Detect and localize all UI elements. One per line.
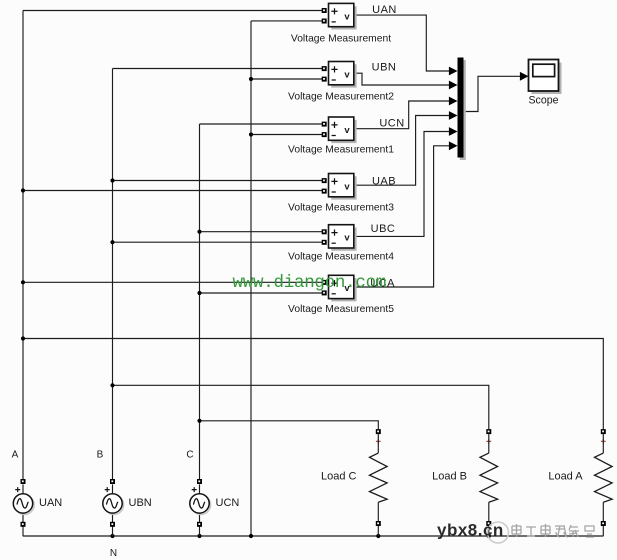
svg-text:UAN: UAN — [39, 497, 62, 509]
arrowhead mux input 3 — [449, 97, 458, 106]
node: N / VM2- junction — [249, 77, 253, 81]
wire: B to Voltage Measurement3 + input — [113, 180, 323, 182]
node: A / UAB- junction — [21, 188, 25, 192]
source UCN (AC voltage source) — [190, 479, 211, 536]
svg-text:Load A: Load A — [548, 470, 583, 482]
svg-text:N: N — [110, 548, 117, 559]
svg-text:Voltage Measurement5: Voltage Measurement5 — [288, 304, 394, 315]
node: C / Load C junction — [197, 419, 201, 423]
node: C / UCA- junction — [197, 291, 201, 295]
node: C / UBC+ junction — [197, 230, 201, 234]
wire: N to Voltage Measurement2 - input — [251, 78, 322, 80]
wire: A to Voltage Measurement5 + input — [23, 281, 322, 283]
svg-text:Voltage Measurement2: Voltage Measurement2 — [288, 91, 394, 102]
node: B / UAB+ junction — [110, 178, 114, 182]
watermark: gray logo circle — [488, 522, 509, 543]
svg-text:UCN: UCN — [379, 117, 404, 129]
node: B / Load B junction — [110, 383, 114, 387]
arrowhead mux input 1 — [449, 67, 458, 76]
wire: UCN output to mux input 3 — [354, 101, 450, 129]
mux block (6-input) — [458, 58, 466, 161]
node: N / VM1- junction — [249, 132, 253, 136]
wire: phase B feed to Load B — [113, 385, 489, 429]
svg-text:C: C — [186, 450, 193, 461]
svg-text:UAN: UAN — [372, 4, 397, 16]
wire: phase A vertical bus — [22, 11, 24, 480]
wire: N to Voltage Measurement1 - input — [251, 134, 322, 136]
svg-text:Voltage Measurement1: Voltage Measurement1 — [288, 145, 394, 156]
wire: UAB output to mux input 4 — [354, 116, 450, 186]
svg-text:Load B: Load B — [432, 470, 467, 482]
wire: UBC output to mux input 5 — [354, 132, 450, 237]
arrowhead scope input — [520, 72, 529, 81]
arrowhead mux input 6 — [449, 141, 458, 150]
node: UBN source / N bus junction — [110, 534, 114, 538]
wire: UAN output to mux input 1 — [354, 15, 450, 71]
node: B / UBC- junction — [110, 240, 114, 244]
node: A / UCA+ junction — [21, 280, 25, 284]
svg-text:UCN: UCN — [216, 497, 240, 509]
wire: A to Voltage Measurement3 - input — [23, 190, 322, 192]
block: Voltage Measurement1 (UCN) — [322, 117, 357, 143]
block: Voltage Measurement3 (UAB) — [322, 174, 357, 200]
wire: phase C feed to Load C — [200, 421, 379, 429]
node: N vertical / N bus junction — [249, 534, 253, 538]
svg-text:Voltage Measurement4: Voltage Measurement4 — [288, 251, 394, 262]
node: Load C / N bus junction — [376, 534, 380, 538]
block: Voltage Measurement4 (UBC) — [322, 225, 357, 251]
block: Voltage Measurement2 (UBN) — [322, 62, 357, 88]
node: Load B / N bus junction — [487, 534, 491, 538]
load C (resistor) — [370, 429, 388, 536]
scope block — [529, 60, 562, 95]
svg-text:UBN: UBN — [129, 497, 152, 509]
source UAN (AC voltage source) — [13, 479, 34, 536]
wire: phase A feed to Load A — [23, 339, 603, 430]
wire: C to Voltage Measurement1 + input — [200, 123, 323, 125]
svg-text:A: A — [12, 450, 19, 461]
wire: N to Voltage Measurement - input — [251, 20, 322, 22]
arrowhead mux input 4 — [449, 111, 458, 120]
svg-text:www.diangon.com: www.diangon.com — [233, 273, 387, 293]
svg-text:UBC: UBC — [371, 223, 396, 235]
svg-text:Scope: Scope — [528, 95, 558, 107]
load A (resistor) — [595, 429, 613, 536]
wire: A to Voltage Measurement + input — [23, 10, 322, 12]
arrowhead mux input 2 — [449, 81, 458, 90]
svg-text:B: B — [97, 450, 104, 461]
wire: neutral bottom bus N — [23, 535, 603, 537]
node: UCN source / N bus junction — [197, 534, 201, 538]
load B (resistor) — [480, 429, 498, 536]
svg-text:Voltage Measurement3: Voltage Measurement3 — [288, 203, 394, 214]
svg-text:Voltage Measurement: Voltage Measurement — [291, 34, 391, 45]
wire: mux output to Scope — [464, 76, 522, 111]
svg-text:UAB: UAB — [372, 176, 396, 188]
wire: N vertical bus — [250, 21, 252, 536]
wire: B to Voltage Measurement2 + input — [113, 68, 323, 70]
wire: phase B vertical bus — [112, 69, 114, 480]
wire: UBN output to mux input 2 — [354, 73, 450, 85]
wire: B to Voltage Measurement4 - input — [113, 241, 323, 243]
node: A / Load A junction — [21, 336, 25, 340]
block: Voltage Measurement5 (UCA) — [322, 275, 357, 301]
watermark: chinese caption (pseudo-glyph strokes) — [512, 524, 594, 537]
wire: C to Voltage Measurement4 + input — [200, 231, 323, 233]
svg-text:Load C: Load C — [321, 470, 357, 482]
source UBN (AC voltage source) — [103, 479, 124, 536]
wire: phase C vertical bus — [199, 124, 201, 479]
svg-text:ybx8.cn: ybx8.cn — [437, 521, 504, 540]
wire: C to Voltage Measurement5 - input — [200, 292, 323, 294]
arrowhead mux input 5 — [449, 127, 458, 136]
svg-text:UBN: UBN — [372, 62, 397, 74]
wire: UCA output to mux input 6 — [354, 146, 450, 287]
block: Voltage Measurement (UAN) — [322, 3, 357, 29]
